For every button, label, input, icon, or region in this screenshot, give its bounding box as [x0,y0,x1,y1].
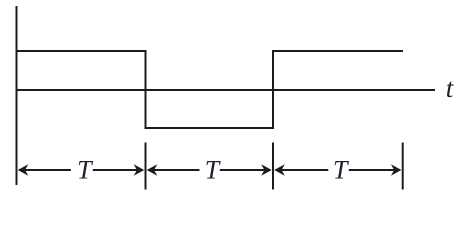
period divider tick 1 [145,143,147,190]
dimension line segment 1 (left part) [19,169,71,171]
dimension line segment 3 (right part) [349,169,400,171]
square wave: rising edge [272,50,274,129]
dimension line segment 3 (left part) [276,169,329,171]
square wave: high segment 2 [272,50,403,52]
period divider tick 2 [272,143,274,190]
horizontal axis (t-axis) [16,89,436,91]
arrowhead right end of segment 2 (points right) [261,164,272,176]
arrowhead right end of segment 1 (points right) [134,164,145,176]
period divider tick 3 [402,143,404,190]
svg-text:T: T [77,156,93,185]
svg-text:T: T [205,156,221,185]
dimension line segment 2 (right part) [220,169,270,171]
arrowhead left end of segment 3 (points left) [274,164,285,176]
square wave: high segment 1 [16,50,146,52]
arrowhead left end of segment 2 (points left) [147,164,158,176]
svg-text:T: T [333,156,349,185]
dimension line segment 1 (right part) [93,169,142,171]
square wave: low segment [145,127,275,129]
dimension line segment 2 (left part) [148,169,200,171]
arrowhead right end of segment 3 (points right) [391,164,402,176]
vertical axis (y-axis) [16,6,18,185]
square wave: falling edge [145,50,147,129]
arrowhead left end of segment 1 (points left) [18,164,29,176]
